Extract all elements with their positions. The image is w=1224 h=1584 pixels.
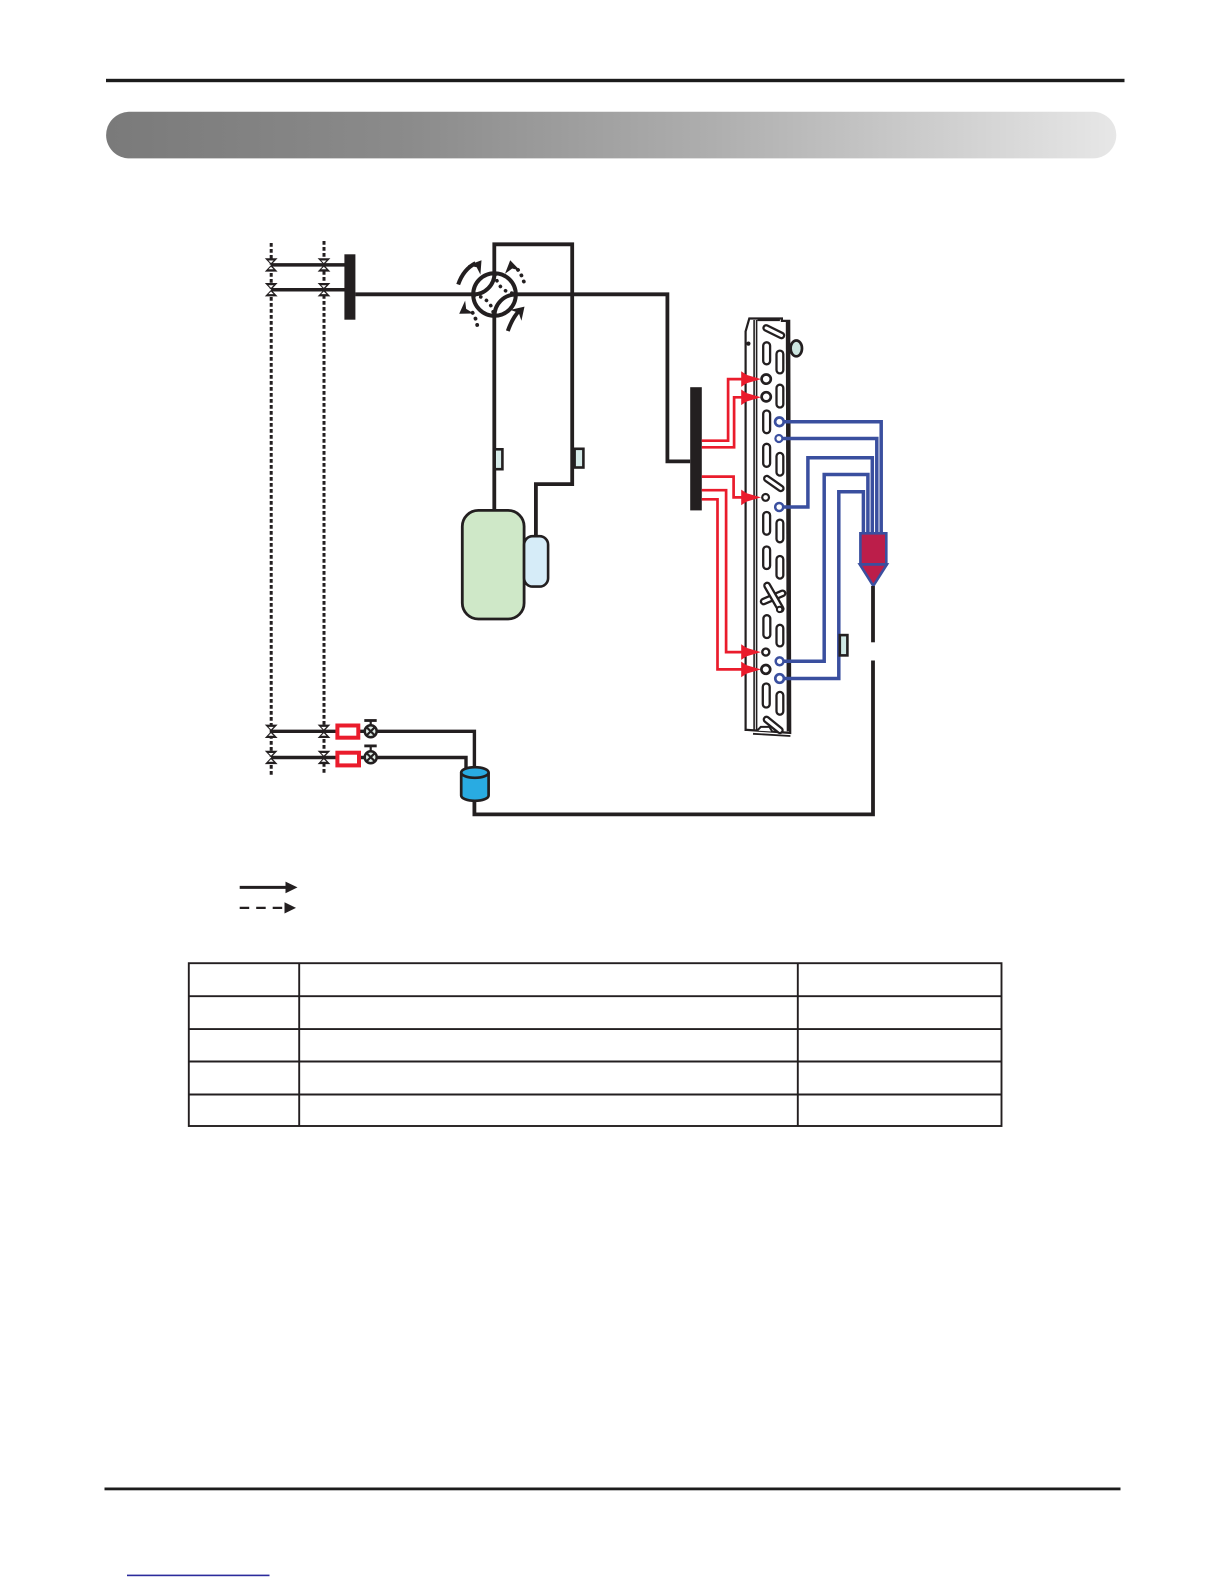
X mark ring — [777, 607, 782, 612]
red arrowhead A3 — [741, 490, 761, 506]
wire: top row2 connecting line — [271, 288, 344, 292]
blue capillary 1 from hole B1 — [783, 422, 881, 537]
X mark bar 1 — [760, 590, 786, 605]
panel louver slots — [760, 324, 786, 734]
distributor — [860, 533, 887, 586]
blue capillary 5 from hole B5 — [783, 492, 863, 679]
header banner — [106, 112, 1116, 159]
left slot E — [763, 444, 770, 467]
accumulator — [524, 536, 548, 586]
right slot R7 — [777, 625, 784, 647]
slanted slot S1 — [763, 324, 785, 339]
X mark bar 2 — [763, 582, 784, 613]
pipe: field liquid line (dashed) — [323, 241, 326, 775]
panel mounting dot — [746, 342, 750, 346]
legend solid-flow arrow — [240, 882, 298, 894]
valve V5 (bottom row1 left) — [265, 725, 278, 738]
wire: main gas pipe from plate to indoor plate — [355, 294, 690, 461]
right slot C — [777, 385, 784, 408]
red arrowhead A4 — [741, 644, 761, 660]
wire: liquid pipe distributor down — [871, 586, 875, 642]
service valve S1 (row1) — [364, 720, 376, 738]
right slot I — [777, 520, 784, 543]
panel knob — [791, 341, 802, 357]
red pipe 1 to hole H1 — [702, 379, 758, 441]
slanted slot S2 — [763, 475, 784, 492]
bottom rule — [105, 1488, 1121, 1491]
left slot L7 — [763, 684, 770, 708]
liquid line sensor — [840, 635, 848, 655]
DIAGRAM — [265, 241, 887, 814]
wire: suction pipe valve to compressor — [492, 294, 496, 511]
sensor/muffler M2 on loop pipe — [575, 449, 584, 468]
valve V2 (top row1 right) — [318, 258, 331, 271]
red arrowhead A2 — [741, 390, 761, 406]
left slot J — [763, 547, 770, 570]
arrow: heating flow lower-left (dashed) — [455, 300, 477, 325]
valve V1 (top row1 left) — [265, 258, 278, 271]
4-way valve U1 — [473, 273, 516, 316]
panel pipe holes (blue side) — [775, 418, 784, 683]
compressor — [462, 510, 524, 619]
red arrowhead A5 — [741, 662, 761, 678]
right slot B — [777, 351, 784, 374]
red pipe 4 to hole H4 — [702, 490, 757, 652]
left slot H — [763, 512, 770, 535]
indoor unit connection plate — [690, 387, 702, 510]
left slot A — [763, 342, 770, 364]
heat exchanger panel outline — [746, 319, 791, 737]
wire: row1 pipe to drier — [271, 731, 474, 768]
outdoor unit service plate — [344, 254, 355, 319]
expansion device E2 (red box row2) — [337, 753, 359, 766]
red pipe 3 to hole H3 — [702, 477, 757, 498]
blue capillary 4 from hole B4 — [783, 475, 868, 662]
arrow: cooling flow lower-right (solid) — [508, 301, 530, 331]
right slot K — [777, 556, 784, 579]
legend dashed-flow arrow — [240, 902, 296, 913]
pipe: field gas line (dashed) — [270, 243, 273, 775]
panel pipe holes (red side) — [761, 375, 770, 674]
blue capillary 2 from hole B2 — [782, 439, 877, 538]
footer link underline — [127, 1575, 270, 1577]
service valve S2 (row2) — [364, 746, 376, 763]
blue capillary 3 from hole B3 — [783, 458, 872, 537]
wire: top row1 connecting line — [271, 263, 344, 267]
valve V6 (bottom row1 right) — [318, 725, 331, 738]
table — [189, 963, 1002, 1126]
top rule — [106, 79, 1125, 82]
valve V4 (top row2 right) — [318, 283, 331, 296]
sensor/muffler M1 on suction pipe — [495, 449, 503, 469]
arrow: heating flow upper-right (dashed) — [503, 259, 524, 282]
left slot D — [763, 411, 770, 434]
left slot L6 — [763, 615, 770, 638]
valve V8 (bottom row2 right) — [318, 751, 331, 764]
strainer/drier — [461, 767, 488, 801]
slanted slot S3 — [763, 716, 784, 734]
wire: row2 pipe to drier — [271, 758, 466, 770]
expansion device E1 (red box row1) — [337, 726, 358, 738]
wire: 4-way valve top loop — [494, 244, 572, 537]
right slot R8 — [777, 692, 784, 715]
valve V7 (bottom row2 left) — [265, 751, 278, 764]
valve V3 (top row2 left) — [265, 283, 278, 296]
red pipe 2 to hole H2 — [702, 397, 758, 447]
red arrowhead A1 — [741, 371, 761, 387]
wire: liquid pipe to drier — [474, 661, 873, 815]
right slot F — [777, 453, 784, 476]
arrow: cooling flow upper-left (solid) — [458, 256, 488, 285]
red pipe 5 to hole H5 — [702, 499, 757, 669]
